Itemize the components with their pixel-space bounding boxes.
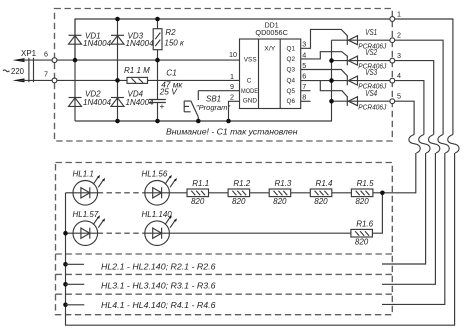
resistor R1 — [124, 66, 150, 83]
node: SB1 bottom rail — [196, 119, 201, 124]
dashed omitted LEDs row2 — [98, 232, 145, 234]
svg-text:Q4: Q4 — [287, 78, 296, 85]
flexible wire 4 from terminal 4 — [382, 81, 430, 264]
svg-text:R1 1 М: R1 1 М — [124, 66, 150, 75]
wire: row1 left — [66, 192, 74, 194]
svg-text:Q2: Q2 — [287, 56, 296, 63]
svg-text:1: 1 — [397, 10, 401, 19]
svg-text:QD0056C: QD0056C — [255, 30, 288, 37]
svg-text:3: 3 — [302, 40, 306, 49]
pushbutton SB1 — [184, 91, 230, 121]
svg-text:PCR406J: PCR406J — [358, 102, 386, 111]
svg-text:25 V: 25 V — [159, 86, 179, 96]
svg-text:HL1.56: HL1.56 — [142, 169, 168, 178]
terminal 2 — [390, 31, 401, 43]
wire: HL3 row left stub — [66, 283, 85, 285]
svg-text:VS3: VS3 — [365, 68, 377, 77]
wire: R1 to DD1 pin 1 — [148, 79, 240, 81]
svg-text:R1.4: R1.4 — [316, 179, 333, 188]
terminal 4 — [390, 71, 401, 83]
LED HL1.56 — [142, 169, 177, 205]
dashed omitted LEDs row1 — [98, 192, 145, 194]
wire: HL2 row left stub — [66, 263, 85, 265]
node: HL2 row — [63, 262, 68, 267]
wire: Q3 to VS3 gate — [301, 70, 348, 77]
resistor R1.6 — [351, 219, 374, 246]
svg-text:2: 2 — [230, 93, 234, 102]
node: HL1.57 row — [63, 231, 68, 236]
flexible wire 3 from terminal 3 — [382, 61, 440, 285]
wire: XP1 pin to terminal 6 — [20, 59, 52, 61]
capacitor C1 — [149, 60, 183, 121]
svg-text:1N4004: 1N4004 — [83, 98, 112, 107]
resistor R1.3 — [269, 179, 292, 206]
terminal 1 — [390, 10, 401, 22]
svg-text:X/Y: X/Y — [264, 46, 275, 53]
node: VS2 cathode — [329, 58, 334, 63]
wire: DD1 pin 9 MODE to SB1 — [198, 90, 239, 92]
LED HL1.57 — [73, 210, 106, 246]
row separator HL2 — [56, 253, 393, 255]
wire: HL1.56 to R1.1 — [169, 192, 187, 194]
svg-text:XP1: XP1 — [21, 49, 37, 58]
wire R1.2-R1.3 — [250, 192, 270, 194]
svg-text:"Program": "Program" — [196, 103, 230, 112]
svg-text:VS4: VS4 — [365, 89, 377, 98]
row separator HL4 — [56, 293, 393, 295]
bottom dashed box — [56, 163, 393, 315]
diode VD2 — [69, 60, 112, 121]
terminal 3 — [390, 51, 401, 63]
svg-text:9: 9 — [230, 82, 234, 91]
node: C1 bottom rail — [155, 119, 160, 124]
svg-text:VS1: VS1 — [365, 28, 377, 37]
svg-text:C: C — [247, 78, 252, 85]
node: VD1/VD2 to pin6 — [73, 58, 78, 63]
wire: R1.6 up to row1 node — [372, 193, 382, 233]
wire: Q4 stub to VS3 node — [301, 80, 332, 82]
svg-text:Q3: Q3 — [287, 67, 296, 74]
svg-text:GND: GND — [243, 98, 258, 105]
node: VS4 cathode — [329, 99, 334, 104]
node: row1/row2 join — [380, 191, 385, 196]
thyristor VS4 — [332, 89, 391, 112]
wire: HL4 row left stub — [66, 304, 85, 306]
svg-text:R1.5: R1.5 — [357, 179, 374, 188]
svg-text:HL3.1 - HL3.140; R3.1 - R3.6: HL3.1 - HL3.140; R3.1 - R3.6 — [101, 281, 216, 291]
resistor R1.1 — [187, 179, 209, 206]
svg-text:820: 820 — [355, 197, 369, 206]
svg-text:6: 6 — [44, 49, 48, 58]
wire: VS4 gate branch — [320, 81, 348, 98]
svg-text:R1.1: R1.1 — [192, 179, 209, 188]
wire R1.5 to node — [373, 192, 383, 194]
svg-text:R1.3: R1.3 — [274, 179, 291, 188]
top dashed box — [55, 9, 393, 142]
svg-text:2: 2 — [397, 31, 401, 40]
wire R1.3-R1.4 — [291, 192, 311, 194]
svg-text:HL1.1: HL1.1 — [73, 169, 94, 178]
svg-text:HL1.140: HL1.140 — [142, 210, 173, 219]
diode VD1 — [69, 19, 112, 60]
wire: Q6 stub — [301, 100, 311, 102]
wire: AC line (terminal 7 to R1) — [57, 79, 127, 81]
wire R1.4-R1.5 — [332, 192, 352, 194]
wire: Q1 to VS1 gate — [301, 29, 348, 48]
svg-text:R2: R2 — [165, 28, 176, 37]
svg-text:150 к: 150 к — [164, 39, 185, 48]
svg-text:1N4004: 1N4004 — [126, 39, 155, 48]
node: VD4 bottom rail — [115, 119, 120, 124]
svg-text:820: 820 — [355, 238, 369, 247]
node: VS3 cathode — [329, 78, 334, 83]
node: HL4 row — [63, 303, 68, 308]
wire: Q2 to VS2 gate — [301, 52, 348, 59]
svg-text:DD1: DD1 — [265, 22, 279, 29]
svg-text:Q5: Q5 — [287, 88, 296, 95]
svg-text:820: 820 — [232, 197, 246, 206]
svg-text:MODE: MODE — [241, 89, 258, 95]
svg-text:220: 220 — [11, 67, 25, 76]
svg-text:VSS: VSS — [244, 57, 257, 64]
flexible wire 5 from terminal 5 — [382, 101, 420, 193]
terminal 6 — [44, 49, 57, 62]
thyristor VS1 — [332, 28, 391, 51]
row separator HL3 — [56, 273, 393, 275]
wire: XP1 pin to terminal 7 — [20, 79, 52, 81]
thyristor VS2 — [332, 48, 391, 70]
diode VD4 — [111, 80, 154, 121]
svg-text:6: 6 — [302, 72, 306, 81]
node: R2 bottom VSS — [155, 58, 160, 63]
wire R1.1-R1.2 — [209, 192, 229, 194]
IC DD1 — [240, 22, 301, 108]
svg-text:Q1: Q1 — [287, 45, 296, 52]
node: VD3/VD4 to pin7 — [115, 78, 120, 83]
LED HL1.1 — [73, 169, 106, 205]
resistor R1.5 — [351, 179, 374, 206]
svg-text:820: 820 — [314, 197, 328, 206]
svg-text:HL1.57: HL1.57 — [73, 210, 99, 219]
svg-text:Внимание! - С1 так установлен: Внимание! - С1 так установлен — [166, 127, 298, 137]
svg-text:820: 820 — [191, 197, 205, 206]
svg-text:HL4.1 - HL4.140; R4.1 - R4.6: HL4.1 - HL4.140; R4.1 - R4.6 — [101, 300, 216, 310]
svg-text:R1.2: R1.2 — [233, 179, 250, 188]
svg-text:R1.6: R1.6 — [356, 219, 373, 228]
svg-text:1: 1 — [230, 72, 234, 81]
node: VD3 top rail — [115, 17, 120, 22]
resistor R2 — [153, 19, 185, 60]
terminal 5 — [390, 92, 401, 104]
connector XP1 — [3, 49, 37, 82]
svg-text:HL2.1 - HL2.140; R2.1 - R2.6: HL2.1 - HL2.140; R2.1 - R2.6 — [101, 262, 216, 272]
node: GND bottom rail — [226, 119, 231, 124]
wire: VSS line (terminal 6 to DD1 pin 10) — [57, 59, 240, 61]
LED HL1.140 — [142, 210, 177, 246]
node: R2 top rail — [155, 17, 160, 22]
svg-text:C1: C1 — [166, 69, 176, 78]
resistor R1.4 — [310, 179, 333, 206]
resistor R1.2 — [228, 179, 251, 206]
wire: Q5 stub — [301, 90, 311, 92]
terminal 7 — [44, 70, 57, 83]
svg-text:4: 4 — [397, 71, 401, 80]
bottom rail wire — [75, 40, 332, 121]
svg-text:5: 5 — [302, 61, 306, 70]
svg-text:5: 5 — [397, 92, 401, 101]
svg-text:8: 8 — [302, 93, 306, 102]
flexible wire 1 from terminal 1 — [66, 19, 460, 325]
wire: HL1.140 to R1.6 — [169, 232, 351, 234]
svg-text:1N4004: 1N4004 — [83, 39, 112, 48]
node: HL3 row — [63, 282, 68, 287]
top rail wire — [75, 19, 390, 60]
svg-text:3: 3 — [397, 51, 401, 60]
wire: DD1 pin 2 GND to bottom rail — [229, 101, 240, 121]
svg-text:4: 4 — [302, 50, 306, 59]
svg-text:7: 7 — [302, 82, 306, 91]
svg-text:Q6: Q6 — [287, 98, 296, 105]
svg-text:+: + — [160, 101, 165, 111]
svg-text:10: 10 — [229, 50, 237, 59]
diode VD3 — [111, 19, 154, 80]
flexible wire 2 from terminal 2 — [382, 40, 449, 304]
thyristor VS3 — [332, 68, 391, 91]
svg-text:VS2: VS2 — [365, 48, 377, 57]
svg-text:820: 820 — [273, 197, 287, 206]
wire: row2 left — [66, 232, 74, 234]
svg-text:7: 7 — [44, 70, 48, 79]
